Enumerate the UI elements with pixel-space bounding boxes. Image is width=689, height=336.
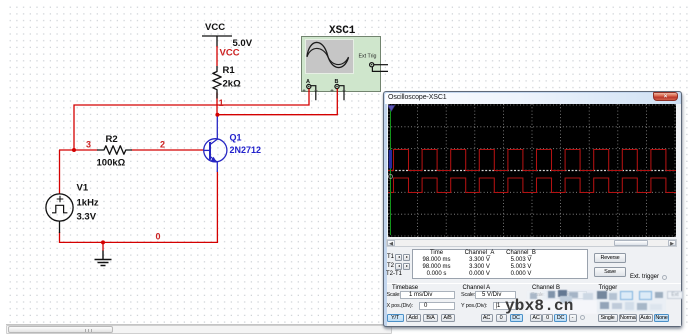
svg-text:VCC: VCC xyxy=(220,48,240,59)
svg-text:VCC: VCC xyxy=(205,22,225,33)
svg-text:2N2712: 2N2712 xyxy=(230,145,262,155)
svg-text:R1: R1 xyxy=(223,65,236,76)
svg-text:R2: R2 xyxy=(106,134,118,145)
svg-text:0: 0 xyxy=(156,232,161,242)
svg-text:V1: V1 xyxy=(77,183,89,194)
svg-text:2kΩ: 2kΩ xyxy=(223,79,242,90)
svg-text:3.3V: 3.3V xyxy=(77,212,97,223)
svg-text:XSC1: XSC1 xyxy=(329,25,356,37)
svg-text:100kΩ: 100kΩ xyxy=(97,158,126,169)
svg-text:1: 1 xyxy=(219,98,224,108)
svg-text:2: 2 xyxy=(160,140,165,150)
svg-text:3: 3 xyxy=(86,140,91,150)
svg-text:1kHz: 1kHz xyxy=(77,198,99,209)
svg-text:Ext Trig: Ext Trig xyxy=(359,54,377,60)
svg-text:Q1: Q1 xyxy=(230,133,242,143)
